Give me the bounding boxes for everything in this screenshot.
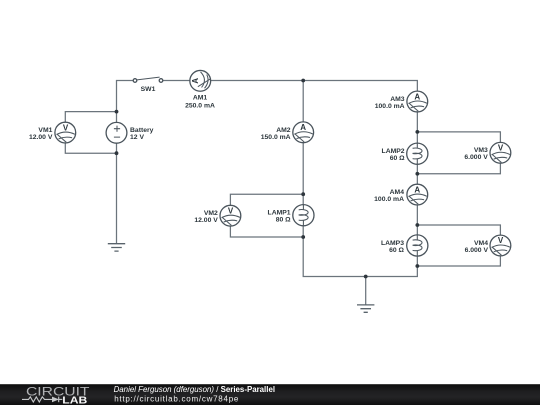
svg-text:60 Ω: 60 Ω (389, 247, 404, 254)
ammeter AM4 (374, 184, 428, 205)
lamp LAMP3 (381, 235, 428, 256)
wire battery bottom to ground (116, 143, 118, 244)
voltmeter VM2 (194, 205, 240, 226)
node VM2 top (301, 192, 305, 196)
svg-text:V: V (498, 236, 504, 245)
wire VM3 bottom to node (417, 163, 500, 174)
svg-text:LAMP3: LAMP3 (381, 240, 404, 247)
svg-text:250.0 mA: 250.0 mA (185, 103, 215, 110)
wire switch to AM1 (163, 80, 190, 82)
svg-text:VM4: VM4 (474, 240, 488, 247)
node battery top (115, 110, 119, 114)
node VM3 top (415, 130, 419, 134)
wire LAMP1 to bottom rail and rail to LAMP3 (303, 226, 417, 277)
svg-text:A: A (414, 92, 420, 101)
node ground rail (364, 275, 368, 279)
svg-text:AM2: AM2 (276, 127, 291, 134)
svg-text:LAB: LAB (62, 395, 87, 405)
node VM4 top (415, 223, 419, 227)
ammeter AM3 (375, 91, 428, 112)
svg-text:LAMP1: LAMP1 (268, 210, 291, 217)
svg-text:SW1: SW1 (141, 86, 156, 93)
svg-text:AM3: AM3 (390, 96, 405, 103)
wire down to AM2 (302, 81, 304, 122)
lamp LAMP2 (382, 143, 428, 164)
wire AM2 to LAMP1 (302, 143, 304, 205)
svg-text:12.00 V: 12.00 V (194, 217, 218, 224)
svg-text:Battery: Battery (130, 127, 154, 134)
svg-text:A: A (300, 123, 306, 132)
svg-text:100.0 mA: 100.0 mA (374, 196, 404, 203)
svg-text:100.0 mA: 100.0 mA (375, 103, 405, 110)
svg-text:VM2: VM2 (204, 210, 218, 217)
svg-text:A: A (191, 78, 200, 84)
switch SW1 (133, 77, 163, 93)
svg-text:Daniel Ferguson (dferguson) /: Daniel Ferguson (dferguson) / Series-Par… (114, 385, 275, 394)
svg-text:80 Ω: 80 Ω (276, 217, 291, 224)
wire battery node to VM1 top (65, 112, 116, 123)
ammeter AM1 (185, 70, 215, 109)
node VM2 bottom (301, 235, 305, 239)
voltmeter VM1 (29, 122, 76, 143)
wire VM2 top connection (230, 194, 303, 205)
ground bottom (357, 305, 374, 312)
svg-text:A: A (414, 185, 420, 194)
svg-text:http://circuitlab.com/cw784pe: http://circuitlab.com/cw784pe (114, 394, 239, 403)
voltmeter VM4 (465, 235, 511, 256)
svg-text:V: V (498, 144, 504, 153)
svg-text:AM4: AM4 (390, 189, 405, 196)
svg-text:12.00 V: 12.00 V (29, 134, 53, 141)
wire top left corner to switch (117, 81, 134, 123)
node VM3 bottom (415, 172, 419, 176)
svg-text:VM1: VM1 (38, 127, 52, 134)
svg-text:6.000 V: 6.000 V (464, 154, 488, 161)
svg-text:150.0 mA: 150.0 mA (261, 134, 291, 141)
node AM2 branch (301, 79, 305, 83)
battery voltage source (106, 122, 154, 143)
logo diode triangle (52, 397, 59, 403)
svg-text:VM3: VM3 (474, 147, 488, 154)
wire LAMP2 to AM4 (416, 164, 418, 184)
svg-text:AM1: AM1 (193, 95, 208, 102)
wire ground stem bottom (365, 277, 367, 305)
wire AM3 to LAMP2 (416, 112, 418, 143)
node VM4 bottom (415, 264, 419, 268)
wire node to VM3 top (417, 132, 500, 143)
wire VM4 bottom to node (417, 256, 500, 266)
wire VM2 bottom connection (230, 226, 303, 237)
ammeter AM2 (261, 122, 314, 143)
wire node to VM4 top (417, 225, 500, 235)
svg-text:V: V (63, 123, 69, 132)
ground left (108, 244, 125, 251)
wire AM1 to right corner down to AM3 (211, 81, 418, 92)
lamp LAMP1 (268, 205, 314, 226)
wire VM1 bottom to battery node (65, 143, 116, 153)
svg-text:6.000 V: 6.000 V (465, 247, 489, 254)
voltmeter VM3 (464, 142, 510, 163)
svg-text:60 Ω: 60 Ω (390, 155, 405, 162)
svg-text:V: V (228, 206, 234, 215)
svg-text:12 V: 12 V (130, 134, 144, 141)
node battery bottom (115, 151, 119, 155)
wire AM4 to LAMP3 (416, 205, 418, 235)
logo resistor zigzag and diode (22, 397, 62, 403)
svg-text:LAMP2: LAMP2 (382, 148, 405, 155)
